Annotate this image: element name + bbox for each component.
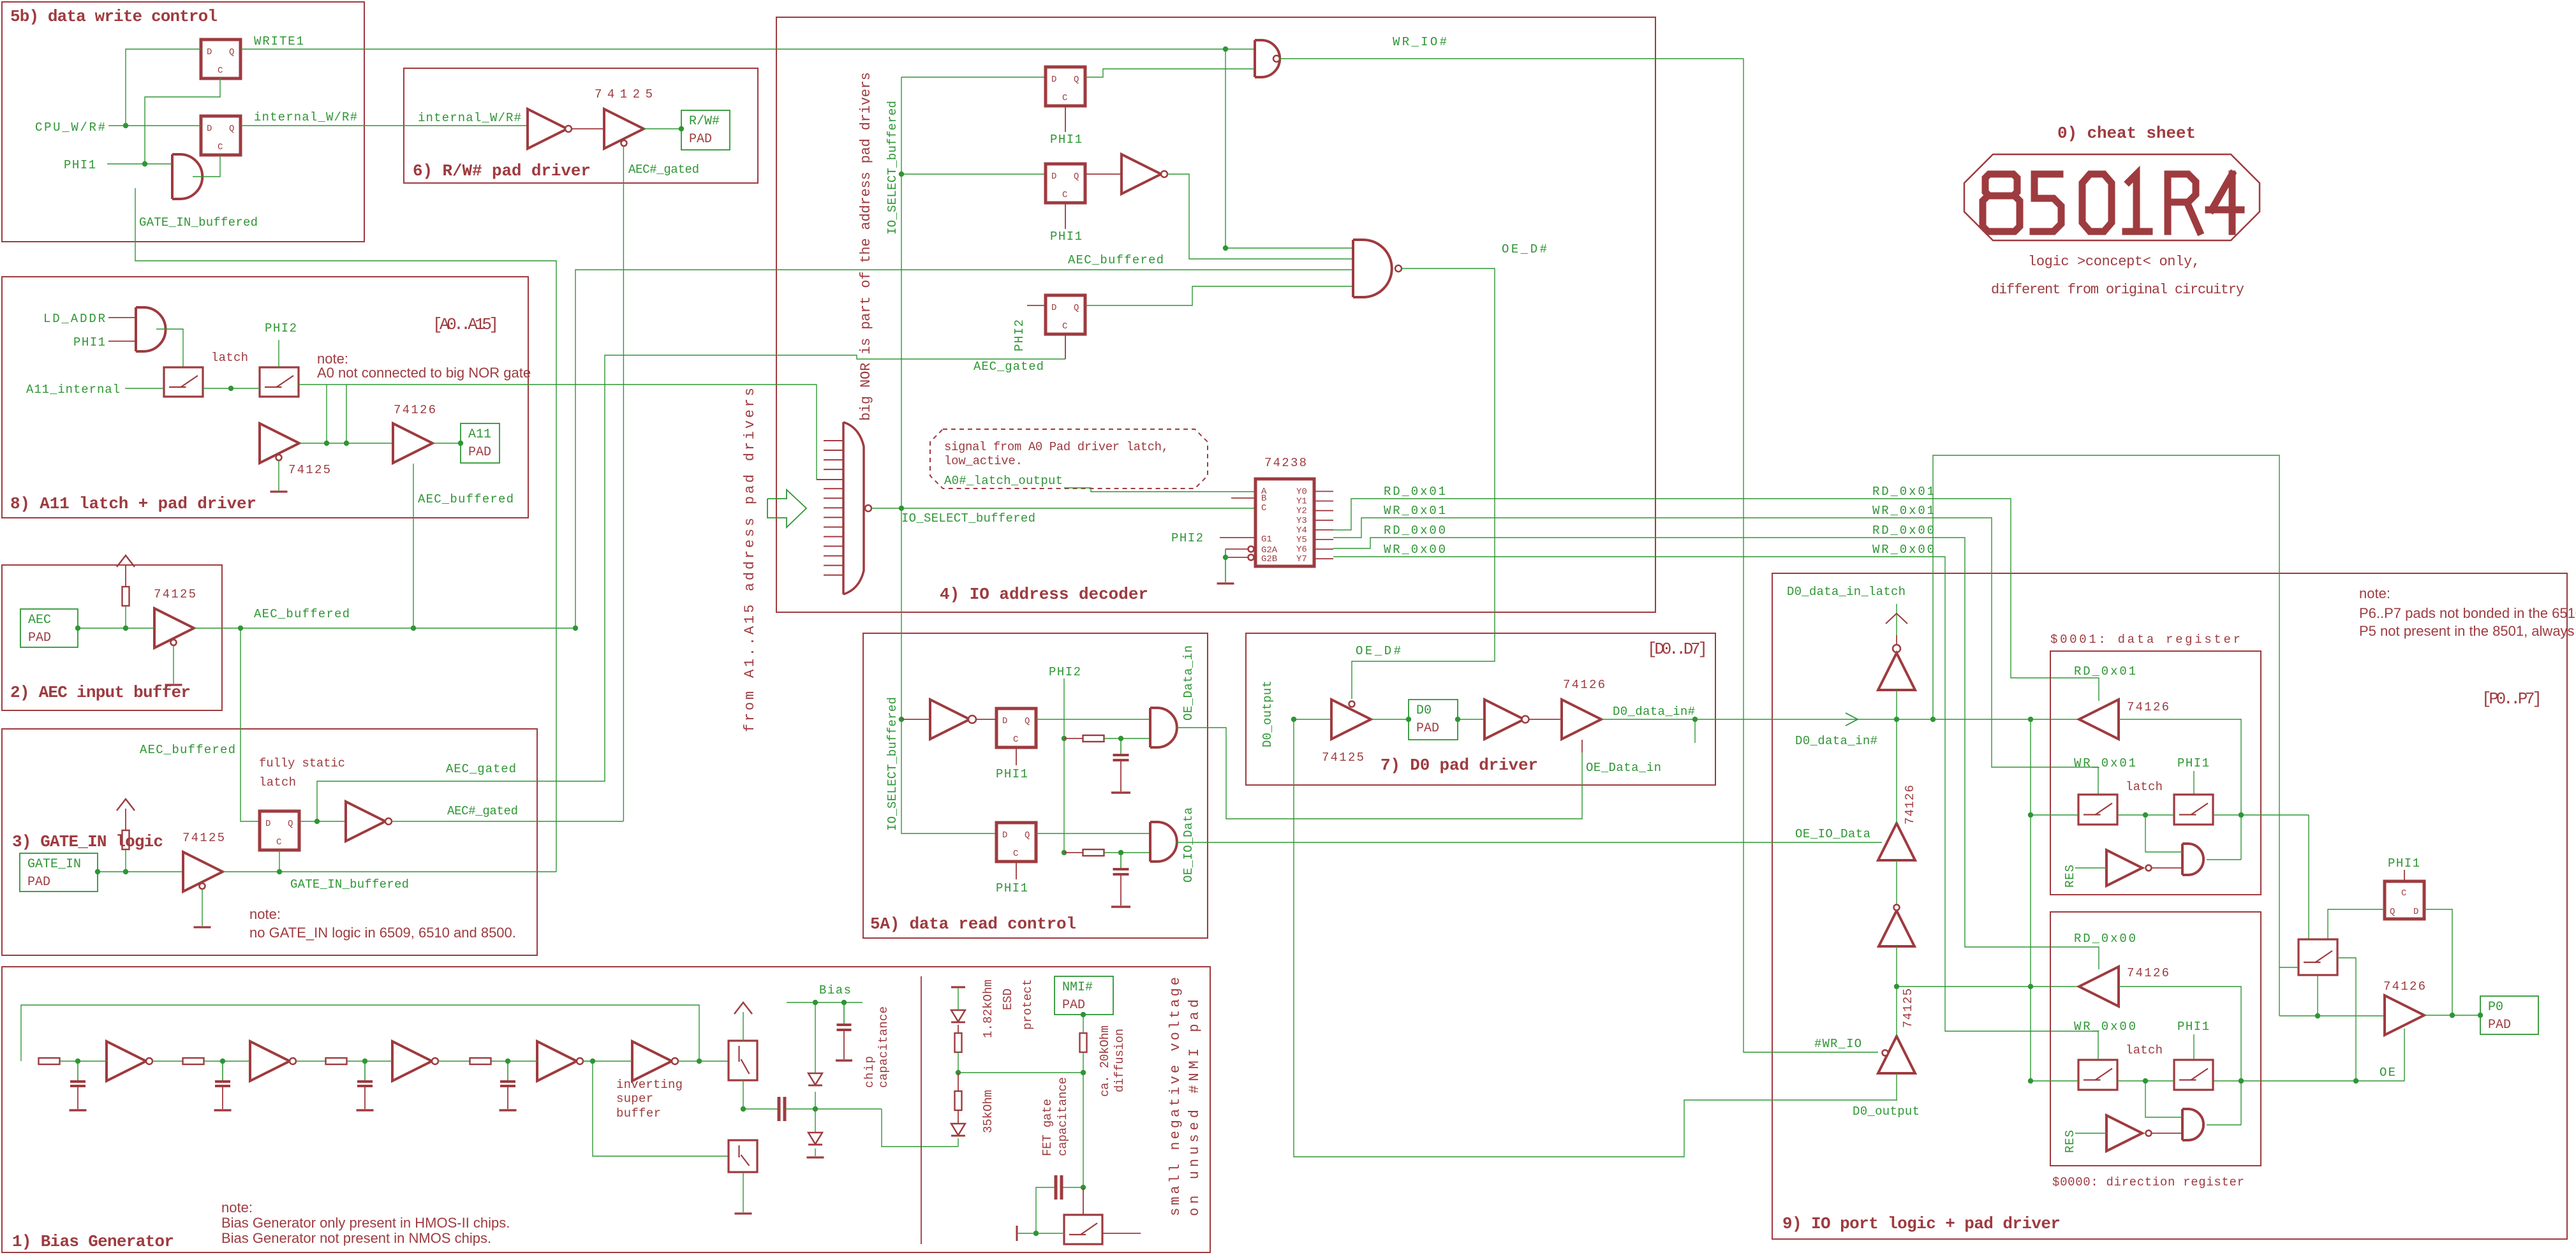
- svg-text:C: C: [276, 837, 281, 848]
- svg-text:74126: 74126: [2127, 700, 2169, 714]
- svg-text:D: D: [1002, 716, 1007, 726]
- resistor R1 (bias): [39, 1058, 60, 1064]
- label D0_data_in_latch: [1787, 585, 1906, 599]
- svg-text:IO_SELECT_buffered: IO_SELECT_buffered: [901, 511, 1035, 525]
- wire 74126 enable (block7): [1581, 740, 1583, 752]
- label chip capacitance: [862, 1006, 891, 1088]
- wire upper switch out: [741, 1080, 746, 1112]
- latch U5 (block4 mid): [1046, 164, 1085, 203]
- svg-text:C: C: [1062, 93, 1067, 103]
- label OE_Data_in (block7): [1586, 761, 1661, 775]
- inverter (block 3): [346, 802, 392, 841]
- NAND4 OE_D#: [1353, 240, 1402, 297]
- svg-text:different from original circui: different from original circuitry: [1991, 282, 2244, 298]
- wire AND fb (b9-0): [2207, 1124, 2241, 1126]
- label OE: [2380, 1066, 2395, 1080]
- cheat sheet line 2: [1991, 282, 2244, 298]
- buffer col tri2 74126 (up): [1878, 823, 1915, 860]
- title 7: [1381, 756, 1538, 775]
- svg-text:PHI2: PHI2: [265, 321, 297, 335]
- wire OE to enable: [2404, 1029, 2405, 1081]
- wire AND in1 (b9-0): [2145, 1081, 2182, 1117]
- title 5b: [10, 7, 218, 26]
- svg-text:$0000: direction register: $0000: direction register: [2052, 1175, 2244, 1189]
- label AEC#_gated (block 6): [628, 163, 699, 177]
- resistor R2 (bias): [183, 1058, 204, 1064]
- svg-text:AEC_gated: AEC_gated: [973, 360, 1044, 374]
- label AEC_buffered (block 8): [418, 492, 514, 506]
- label big NOR note: [858, 72, 874, 421]
- svg-text:A0#_latch_output: A0#_latch_output: [944, 474, 1063, 488]
- wire GATE_IN_buffered (block 3): [223, 871, 556, 872]
- buffer col tri1 (up): [1878, 653, 1915, 690]
- arrow D0_data_in#: [1846, 713, 1858, 726]
- pad P0: [2480, 996, 2538, 1034]
- svg-text:2) AEC input buffer: 2) AEC input buffer: [10, 683, 191, 702]
- svg-text:AEC#_gated: AEC#_gated: [447, 804, 518, 818]
- pass gate b9-0a: [2078, 1060, 2117, 1090]
- svg-text:OE_D#: OE_D#: [1356, 644, 1401, 658]
- wire 20k down: [1083, 1052, 1084, 1073]
- title 8: [10, 494, 256, 513]
- svg-text:OE_IO_Data: OE_IO_Data: [1181, 807, 1195, 883]
- wire OE_D# route: [1352, 268, 1495, 699]
- svg-text:capacitance: capacitance: [1056, 1077, 1070, 1156]
- wire AEC pad to buffer: [75, 626, 154, 631]
- svg-text:AEC_buffered: AEC_buffered: [1068, 253, 1164, 267]
- svg-text:WR_0x00: WR_0x00: [2074, 1020, 2136, 1034]
- label latch (block 8): [211, 351, 248, 365]
- svg-text:C: C: [218, 66, 223, 76]
- wire 74126 enable (block 8): [413, 464, 414, 628]
- svg-text:LD_ADDR: LD_ADDR: [43, 312, 105, 326]
- svg-text:Y7: Y7: [1296, 554, 1307, 564]
- svg-text:AEC_buffered: AEC_buffered: [418, 492, 514, 506]
- svg-text:A0 not connected to big NOR ga: A0 not connected to big NOR gate: [317, 365, 531, 381]
- label AEC#_gated (block 3): [447, 804, 518, 818]
- svg-text:PAD: PAD: [1062, 998, 1085, 1013]
- svg-text:low_active.: low_active.: [944, 454, 1023, 468]
- switch upper (bias): [729, 1041, 757, 1080]
- label D0_data_in# (block7): [1613, 705, 1695, 719]
- box $0001: [2050, 651, 2261, 895]
- svg-text:Q: Q: [1074, 75, 1079, 85]
- svg-text:PHI1: PHI1: [73, 335, 105, 349]
- wire latch row 0x01: [2031, 812, 2309, 818]
- wire NOR out: [871, 506, 904, 511]
- latch U7 (5A upper): [996, 708, 1036, 747]
- wire WR_IO# drop: [1743, 59, 1878, 1052]
- buffer 74126 rd00: [2079, 967, 2119, 1006]
- svg-text:Bias Generator not present in: Bias Generator not present in NMOS chips…: [221, 1230, 491, 1246]
- label RD_0x01 (74238): [1384, 485, 1446, 499]
- svg-text:74125: 74125: [1901, 988, 1915, 1028]
- title 6: [413, 161, 591, 180]
- wire LD_ADDR in: [108, 317, 136, 318]
- latch U6 (block4 PHI2): [1046, 295, 1085, 334]
- svg-text:Y1: Y1: [1296, 497, 1307, 507]
- wire latch Q out (block 3): [299, 819, 346, 824]
- wire U6 Q jog: [1085, 286, 1353, 305]
- wire U1 D input: [126, 49, 201, 126]
- svg-text:latch: latch: [2126, 1043, 2163, 1057]
- diode D1 (bias): [808, 1002, 822, 1109]
- wire internal_W/R# out: [241, 125, 528, 126]
- wire AEC_gated from latch: [317, 355, 1065, 821]
- label D0_output (block9): [1853, 1105, 1920, 1119]
- svg-text:Bias Generator only present in: Bias Generator only present in HMOS-II c…: [221, 1215, 510, 1231]
- note block 3: [249, 906, 516, 941]
- label PHI1 (b9-1): [2177, 756, 2209, 770]
- wire P0 row: [2279, 1015, 2385, 1016]
- svg-text:D: D: [1051, 75, 1056, 85]
- buffer 74125 (block 8): [260, 423, 299, 463]
- wire pad-inv (block7): [1455, 717, 1484, 722]
- svg-text:D0_data_in_latch: D0_data_in_latch: [1787, 585, 1906, 599]
- resistor (5A upper): [1064, 735, 1150, 742]
- title 5A: [870, 914, 1076, 934]
- wire 74125-pad (block7): [1371, 717, 1411, 722]
- wire PHI2 stub: [278, 340, 279, 367]
- inverter I3 (bias): [392, 1041, 438, 1081]
- label RD_0x00 (mid): [1872, 524, 1934, 538]
- note block 1: [221, 1200, 510, 1246]
- label $0000 direction register: [2052, 1175, 2244, 1189]
- wire r1-junction: [956, 1052, 961, 1075]
- svg-text:7) D0 pad driver: 7) D0 pad driver: [1381, 756, 1538, 775]
- pad NMI#: [1055, 976, 1113, 1015]
- label OE_Data_in (5A): [1181, 645, 1195, 721]
- label internal_W/R# (block 6): [418, 111, 521, 125]
- svg-text:Y6: Y6: [1296, 545, 1307, 555]
- title 0 cheat sheet: [2057, 124, 2196, 143]
- svg-text:G2B: G2B: [1261, 554, 1277, 564]
- NAND2 WR_IO#: [1255, 40, 1280, 77]
- svg-text:C: C: [218, 142, 223, 152]
- wire IO_SELECT riser: [899, 77, 1046, 508]
- svg-text:logic >concept< only,: logic >concept< only,: [2028, 254, 2200, 270]
- svg-text:8) A11 latch + pad driver: 8) A11 latch + pad driver: [10, 494, 256, 513]
- big NOR gate: [843, 422, 871, 594]
- svg-text:C: C: [1062, 190, 1067, 200]
- label LD_ADDR: [43, 312, 105, 326]
- label WR_0x00 (b9): [2074, 1020, 2136, 1034]
- svg-text:no GATE_IN logic in 6509, 6510: no GATE_IN logic in 6509, 6510 and 8500.: [249, 925, 516, 941]
- arrow into NOR: [767, 490, 806, 527]
- wire inv-latch (5A): [976, 719, 996, 720]
- wire switch bottom out: [2315, 975, 2320, 1018]
- label PHI2 U6: [1012, 305, 1046, 351]
- buffer 74125b (block 6): [604, 109, 644, 149]
- svg-text:inverting: inverting: [616, 1078, 683, 1092]
- svg-text:WR_0x00: WR_0x00: [1384, 543, 1446, 557]
- svg-text:D0_data_in#: D0_data_in#: [1795, 734, 1877, 748]
- label AEC_buffered (block 2): [254, 607, 350, 621]
- svg-text:RD_0x00: RD_0x00: [2074, 932, 2136, 946]
- label RD_0x00 (b9): [2074, 932, 2136, 946]
- block 2 AEC input buffer frame: [2, 565, 222, 710]
- label 74125 (block 8): [288, 463, 330, 477]
- label IO_SELECT_buffered (nor): [901, 511, 1035, 525]
- wire inv out drop: [1167, 174, 1353, 259]
- svg-text:Q: Q: [229, 124, 234, 134]
- svg-text:0) cheat sheet: 0) cheat sheet: [2057, 124, 2196, 143]
- wire I4-I5 (bias): [582, 1059, 632, 1064]
- decoder 74238 pins: [1261, 487, 1333, 564]
- block 8 A11 latch frame: [2, 277, 528, 518]
- wire PHI2 vert (5A): [1062, 679, 1067, 855]
- wire latch Q (P0): [2328, 909, 2385, 939]
- svg-text:note:: note:: [2359, 585, 2390, 601]
- wire RD_0x00: [1333, 538, 2099, 969]
- inverter I2 (bias): [250, 1041, 296, 1081]
- pad GATE_IN: [20, 853, 98, 892]
- wire fet out: [1102, 1233, 1141, 1234]
- wire PHI1 stub (P0): [2404, 870, 2405, 881]
- label 74126 (block 8): [394, 403, 436, 417]
- title 9: [1782, 1214, 2061, 1233]
- label PHI1 U5: [1050, 203, 1082, 244]
- wire IO_SELECT into 5A: [899, 508, 930, 722]
- label Bias: [819, 983, 851, 997]
- pass gate S1 (block 8): [164, 367, 203, 397]
- wire GATE_IN pad row: [95, 869, 183, 874]
- 8501R4 big text: [1983, 174, 2241, 231]
- svg-text:big NOR is part of the address: big NOR is part of the address pad drive…: [858, 72, 874, 421]
- box $0000: [2050, 912, 2261, 1166]
- wire AEC#_gated out: [392, 821, 623, 822]
- capacitor C1 (bias): [70, 1059, 87, 1110]
- svg-text:chip: chip: [862, 1056, 877, 1088]
- svg-text:D0_data_in#: D0_data_in#: [1613, 705, 1695, 719]
- label OE_IO_Data (5A): [1181, 807, 1195, 883]
- svg-text:AEC#_gated: AEC#_gated: [628, 163, 699, 177]
- wire D0_data_in# to block9: [1695, 717, 2080, 722]
- label WR_0x00 (mid): [1872, 543, 1934, 557]
- wire AEC_buffered riser to NAND: [575, 270, 1353, 628]
- label RES (b9-1): [2063, 865, 2077, 888]
- wire buffer chain (block 6): [572, 126, 684, 131]
- wire bias node: [815, 1108, 882, 1110]
- svg-text:PAD: PAD: [27, 875, 50, 890]
- svg-text:PAD: PAD: [468, 445, 491, 460]
- buffer 74125 (block 2): [154, 608, 194, 648]
- svg-text:Q: Q: [1025, 716, 1030, 726]
- buffer 74126 (block 8): [393, 423, 433, 463]
- svg-text:latch: latch: [211, 351, 248, 365]
- label A11_internal: [26, 383, 120, 397]
- svg-text:IO_SELECT_buffered: IO_SELECT_buffered: [885, 101, 899, 235]
- svg-text:diffusion: diffusion: [1113, 1029, 1127, 1092]
- svg-text:[A0..A15]: [A0..A15]: [433, 315, 499, 334]
- label RD_0x01 (b9): [2074, 664, 2136, 679]
- wire latch drop a: [324, 385, 329, 446]
- svg-text:WR_0x01: WR_0x01: [2074, 756, 2136, 770]
- svg-text:Y3: Y3: [1296, 516, 1307, 526]
- label PHI1 (P0): [2388, 856, 2420, 870]
- latch CQD (P0): [2385, 881, 2424, 919]
- svg-text:NMI#: NMI#: [1062, 980, 1093, 995]
- svg-text:4) IO address decoder: 4) IO address decoder: [940, 585, 1148, 604]
- inverter I5 (bias): [632, 1041, 678, 1081]
- label 74238: [1264, 456, 1307, 470]
- block 5A data read control frame: [863, 633, 1208, 938]
- gnd fet: [1017, 1226, 1064, 1241]
- svg-text:C: C: [1013, 735, 1018, 745]
- label A0..A15: [433, 315, 499, 334]
- svg-text:protect: protect: [1021, 979, 1035, 1030]
- svg-text:D: D: [2413, 907, 2418, 917]
- svg-text:WR_0x01: WR_0x01: [1872, 504, 1934, 518]
- label WR_0x01 (mid): [1872, 504, 1934, 518]
- buffer 74126 (block7): [1562, 700, 1601, 739]
- cheat sheet octagon: [1964, 154, 2260, 240]
- label IO_SELECT_buffered (5A): [885, 697, 899, 831]
- svg-text:35kOhm: 35kOhm: [981, 1090, 995, 1133]
- svg-text:RD_0x01: RD_0x01: [1872, 485, 1934, 499]
- label IO_SELECT_buffered (block4): [885, 101, 899, 235]
- label D0_output (block7): [1261, 680, 1275, 747]
- svg-text:74126: 74126: [2127, 966, 2169, 980]
- svg-text:D: D: [1002, 830, 1007, 840]
- label GATE_IN_buffered (block 3): [290, 877, 409, 892]
- label latch (b9-1): [2126, 780, 2163, 794]
- buffer 74125 (block7): [1331, 700, 1371, 739]
- wire lower switch feed: [593, 1061, 729, 1156]
- label 74125 (block 6): [595, 87, 653, 101]
- svg-text:74125: 74125: [288, 463, 330, 477]
- block 9 IO port logic frame: [1772, 573, 2567, 1239]
- capacitor (5A lower): [1111, 853, 1130, 907]
- label OE_IO_Data (block9): [1795, 827, 1870, 841]
- block 3 GATE_IN logic frame: [2, 729, 537, 955]
- svg-text:RES: RES: [2063, 865, 2077, 888]
- wire RD_0x01: [1333, 499, 2099, 701]
- svg-text:9) IO port logic + pad driver: 9) IO port logic + pad driver: [1782, 1214, 2061, 1233]
- svg-text:Y2: Y2: [1296, 506, 1307, 517]
- latch U8 (5A lower): [996, 823, 1036, 862]
- svg-text:5b) data write control: 5b) data write control: [10, 7, 218, 26]
- wire RES inv (b9-0): [2075, 1133, 2182, 1134]
- svg-text:74126: 74126: [1563, 678, 1605, 692]
- svg-text:RD_0x00: RD_0x00: [1872, 524, 1934, 538]
- svg-text:GATE_IN_buffered: GATE_IN_buffered: [139, 216, 258, 230]
- svg-text:signal from A0 Pad driver latc: signal from A0 Pad driver latch,: [944, 440, 1169, 454]
- capacitor C4 (bias): [500, 1059, 517, 1110]
- wire esd link: [882, 1109, 958, 1147]
- wire OE_IO_Data route: [1176, 842, 1882, 843]
- svg-text:WR_0x00: WR_0x00: [1872, 543, 1934, 557]
- wire OE row: [2213, 1078, 2404, 1083]
- label PHI1 (5b): [64, 158, 96, 172]
- wire G2 enables: [1217, 547, 1254, 584]
- wire feedback loop (bias): [21, 1005, 699, 1061]
- svg-text:D: D: [265, 819, 270, 829]
- svg-text:Q: Q: [2390, 907, 2395, 917]
- wire I5 out (bias): [678, 1059, 729, 1064]
- wire WR_IO# out: [1280, 58, 1743, 59]
- wire tri3: [1894, 946, 1899, 989]
- inverter RES (b9-0): [2106, 1115, 2152, 1151]
- wire CPU_W/R#: [108, 123, 201, 128]
- pass gate S2 (block 8): [260, 367, 299, 397]
- wire D0_data_in# out: [1601, 717, 1698, 722]
- label P0..P7: [2482, 689, 2542, 708]
- label inverting super buffer: [616, 1078, 683, 1120]
- wire D0_data_in# stub down: [1694, 719, 1696, 743]
- label PHI1 U7: [996, 747, 1028, 781]
- svg-text:internal_W/R#: internal_W/R#: [254, 110, 357, 124]
- label #WR_IO: [1814, 1037, 1862, 1051]
- svg-text:PHI1: PHI1: [64, 158, 96, 172]
- wire OE_Data_in route: [1176, 728, 1582, 819]
- wire latch row 0x00: [2031, 1078, 2174, 1083]
- wire GATE_IN_buffered riser: [135, 188, 556, 872]
- svg-text:74126: 74126: [394, 403, 436, 417]
- wire U8 Q out: [1036, 833, 1150, 834]
- pass gate b9-1a: [2078, 795, 2117, 825]
- wire rd01 in: [2119, 719, 2244, 860]
- wire nmi pad down: [1081, 1012, 1086, 1034]
- svg-text:PHI1: PHI1: [996, 767, 1028, 781]
- svg-text:P6..P7 pads not bonded in the: P6..P7 pads not bonded in the 6510 and 8…: [2359, 605, 2576, 621]
- wire tri1: [1896, 690, 1897, 719]
- wire A11 to NOR: [556, 385, 817, 480]
- buffer 74125 (block 3): [183, 852, 223, 892]
- svg-text:PHI2: PHI2: [1049, 665, 1081, 679]
- switch lower (bias): [729, 1140, 757, 1172]
- svg-text:R/W#: R/W#: [689, 114, 720, 129]
- wire tri2: [1896, 719, 1897, 904]
- wire A11_internal: [125, 386, 260, 391]
- svg-text:RD_0x01: RD_0x01: [1384, 485, 1446, 499]
- svg-text:Q: Q: [1074, 172, 1079, 182]
- wire tri4: [1896, 987, 1897, 1100]
- AND gate G1 (5b): [172, 154, 202, 199]
- label WR_IO#: [1393, 35, 1447, 49]
- wire WR_0x01: [1333, 518, 2098, 795]
- label CPU_W/R#: [35, 121, 105, 135]
- label AEC_gated (block 3): [446, 762, 516, 776]
- AND gate (5A lower): [1150, 822, 1177, 862]
- pullup resistor (block 3): [117, 799, 135, 872]
- svg-text:IO_SELECT_buffered: IO_SELECT_buffered: [885, 697, 899, 831]
- switch fet (esd): [1064, 1215, 1102, 1244]
- svg-text:C: C: [1013, 849, 1018, 859]
- capacitor chip (bias): [836, 1002, 852, 1061]
- wire WR_0x00: [1333, 557, 2098, 1060]
- wire latch drop b: [344, 385, 349, 446]
- label small negative voltage: [1167, 977, 1203, 1216]
- wire PHI1 stub (b9-1): [2193, 771, 2195, 795]
- label from A1..A15: [742, 388, 758, 732]
- wire IO_SELECT to C: [901, 508, 1255, 509]
- label PHI1 U4: [1050, 106, 1082, 147]
- svg-text:5A) data read control: 5A) data read control: [870, 914, 1076, 934]
- svg-text:74125: 74125: [154, 587, 196, 601]
- label ESD protect: [1001, 979, 1035, 1030]
- svg-text:PAD: PAD: [2488, 1018, 2511, 1032]
- label AEC_gated (block4): [973, 360, 1044, 374]
- latch U1 (WRITE1): [201, 40, 241, 78]
- svg-text:RD_0x00: RD_0x00: [1384, 524, 1446, 538]
- wire inv-74126 (block7): [1529, 719, 1562, 720]
- svg-text:D: D: [1051, 303, 1056, 313]
- svg-text:Q: Q: [288, 819, 293, 829]
- svg-text:GATE_IN_buffered: GATE_IN_buffered: [290, 877, 409, 892]
- wire AEC_buffered row: [194, 626, 578, 631]
- svg-text:PHI1: PHI1: [996, 881, 1028, 895]
